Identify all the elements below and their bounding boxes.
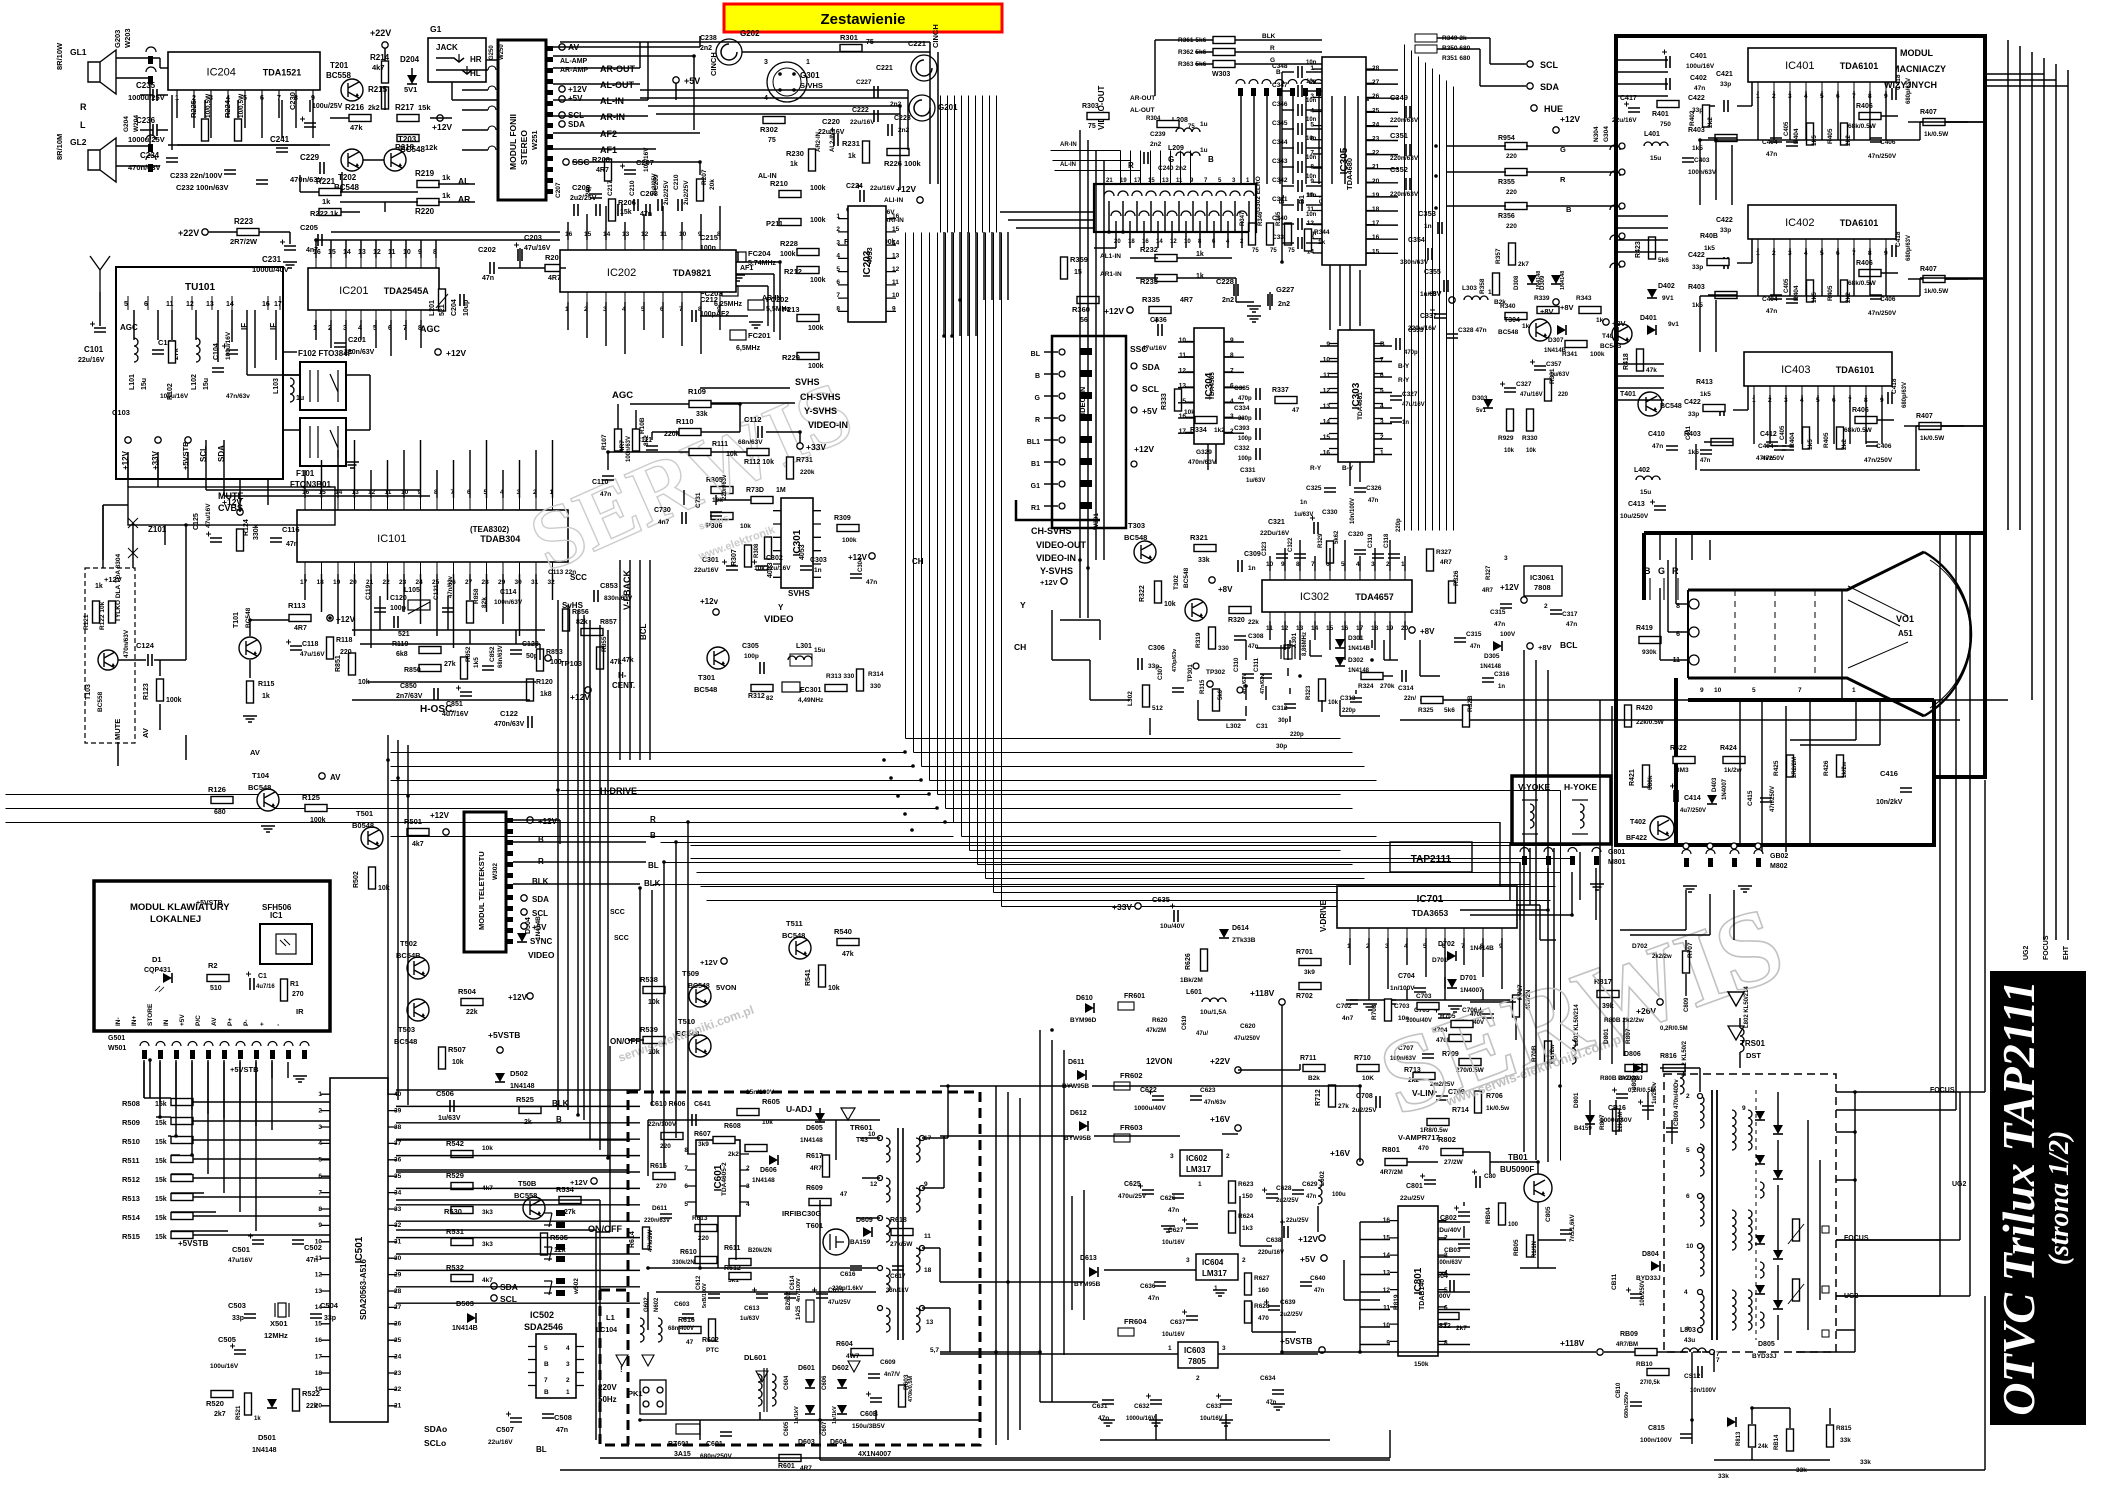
svg-text:B0548: B0548 bbox=[352, 821, 374, 830]
svg-text:CB09 470n/40Dv: CB09 470n/40Dv bbox=[1674, 1079, 1680, 1126]
svg-text:BC558: BC558 bbox=[97, 691, 104, 712]
svg-text:R312: R312 bbox=[748, 693, 765, 700]
svg-text:BYM96D: BYM96D bbox=[1070, 1017, 1097, 1024]
svg-text:19: 19 bbox=[333, 579, 341, 586]
svg-text:BF422: BF422 bbox=[1626, 835, 1647, 842]
svg-text:TDA4605-2: TDA4605-2 bbox=[721, 1162, 728, 1196]
svg-text:C221: C221 bbox=[876, 65, 893, 72]
scart labels bbox=[1100, 155, 1368, 278]
capacitor C241 bbox=[270, 135, 290, 152]
svg-text:6: 6 bbox=[318, 1173, 322, 1180]
wire rarray to ic501 bbox=[144, 1098, 228, 1231]
svg-text:10u/40V: 10u/40V bbox=[1160, 923, 1185, 930]
svg-text:16: 16 bbox=[315, 1337, 323, 1344]
wire c228 net bbox=[1236, 283, 1270, 312]
labels d806 area bbox=[1632, 940, 1694, 996]
svg-text:16: 16 bbox=[1383, 1217, 1391, 1224]
svg-text:2R7/2W: 2R7/2W bbox=[230, 237, 258, 246]
label Y CH bbox=[1014, 600, 1026, 652]
svg-text:AL-IN: AL-IN bbox=[1060, 162, 1076, 168]
svg-text:C801: C801 bbox=[1406, 1183, 1423, 1190]
transformer-caps cluster C328 bbox=[1408, 285, 1632, 354]
svg-text:R207: R207 bbox=[701, 169, 708, 185]
33V cluster bbox=[1070, 895, 1285, 1042]
svg-text:G301: G301 bbox=[800, 71, 820, 80]
svg-text:R509: R509 bbox=[122, 1118, 140, 1127]
svg-text:+16V: +16V bbox=[1330, 1148, 1350, 1158]
svg-text:27/0,5k: 27/0,5k bbox=[1640, 1380, 1661, 1386]
svg-text:11: 11 bbox=[1323, 372, 1330, 379]
svg-text:1k: 1k bbox=[848, 153, 856, 160]
svg-text:5,7: 5,7 bbox=[930, 1347, 939, 1354]
connector G203 G204 hooks bbox=[123, 47, 156, 172]
svg-text:R314: R314 bbox=[868, 671, 884, 678]
svg-text:T402: T402 bbox=[1630, 819, 1646, 826]
flyback pots bbox=[1788, 1219, 1869, 1337]
transistor T304 bbox=[1498, 303, 1626, 378]
IC302 TDA4657 bbox=[1262, 561, 1412, 632]
svg-text:16: 16 bbox=[262, 301, 270, 308]
svg-text:22u/25V: 22u/25V bbox=[1286, 1218, 1309, 1224]
svg-text:2u2/25V: 2u2/25V bbox=[570, 195, 597, 202]
svg-text:R620: R620 bbox=[1152, 1017, 1168, 1024]
yoke box V-YOKE H-YOKE bbox=[1512, 776, 1611, 844]
svg-text:22u/16V: 22u/16V bbox=[870, 185, 895, 192]
svg-text:37: 37 bbox=[394, 1140, 402, 1147]
svg-text:33k: 33k bbox=[1840, 1437, 1851, 1444]
svg-text:R1: R1 bbox=[290, 981, 299, 988]
svg-text:470: 470 bbox=[1258, 1315, 1269, 1322]
svg-text:47u/16V: 47u/16V bbox=[524, 245, 551, 252]
svg-text:68k/0.5W: 68k/0.5W bbox=[1848, 280, 1877, 287]
MUTE AV labels bbox=[113, 719, 150, 740]
svg-text:T104: T104 bbox=[252, 771, 270, 780]
wire onoff run bbox=[596, 1040, 644, 1232]
svg-text:SCL: SCL bbox=[1142, 384, 1159, 394]
svg-text:11: 11 bbox=[1176, 178, 1183, 184]
res R604 C609 bbox=[836, 1341, 900, 1378]
svg-text:7: 7 bbox=[1380, 357, 1384, 364]
svg-text:+5V: +5V bbox=[1142, 406, 1158, 416]
svg-text:470n/63V: 470n/63V bbox=[1188, 459, 1217, 466]
svg-text:22u/16V: 22u/16V bbox=[488, 1439, 513, 1446]
svg-text:21: 21 bbox=[394, 1403, 402, 1410]
svg-text:R: R bbox=[1035, 417, 1040, 424]
svg-text:1: 1 bbox=[1168, 1345, 1172, 1352]
capacitor C232 bbox=[176, 180, 268, 192]
svg-text:AF2: AF2 bbox=[600, 129, 617, 139]
svg-text:470k/0,5M: 470k/0,5M bbox=[908, 1376, 914, 1402]
svg-text:C215: C215 bbox=[700, 233, 718, 242]
svg-text:C60B: C60B bbox=[860, 1411, 878, 1418]
svg-text:15n/100V: 15n/100V bbox=[746, 1089, 775, 1096]
svg-text:R420: R420 bbox=[1636, 705, 1653, 712]
svg-text:SFH506: SFH506 bbox=[262, 903, 292, 912]
svg-text:C610 R606: C610 R606 bbox=[650, 1101, 686, 1108]
video-in bus label bbox=[1078, 387, 1087, 420]
svg-text:10: 10 bbox=[1184, 239, 1191, 245]
svg-text:CB11: CB11 bbox=[1611, 1273, 1618, 1290]
wire scart upper feeds bbox=[1051, 151, 1191, 185]
svg-text:470p/63v: 470p/63v bbox=[1172, 648, 1178, 672]
flyback TR801 DST bbox=[1664, 1026, 1836, 1352]
svg-text:82: 82 bbox=[766, 695, 774, 702]
svg-text:R802: R802 bbox=[1438, 1135, 1456, 1144]
svg-text:47n: 47n bbox=[1314, 1288, 1325, 1294]
svg-text:IC202: IC202 bbox=[607, 267, 636, 279]
svg-text:15u: 15u bbox=[203, 378, 210, 390]
scart G302 ELRO bbox=[1094, 176, 1262, 245]
svg-text:100n/63V: 100n/63V bbox=[626, 436, 632, 462]
svg-text:G201: G201 bbox=[938, 103, 958, 112]
svg-text:L103: L103 bbox=[273, 378, 280, 394]
svg-text:R807: R807 bbox=[1625, 1028, 1632, 1044]
right edge vertical wires bbox=[1985, 40, 2068, 940]
svg-text:3: 3 bbox=[1504, 555, 1508, 562]
svg-text:+: + bbox=[259, 1022, 266, 1026]
capacitor C201 bbox=[334, 335, 375, 356]
transformer TR601 windings bbox=[868, 1128, 939, 1354]
svg-text:15k: 15k bbox=[155, 1177, 167, 1184]
res R113 R118 bbox=[286, 601, 356, 659]
svg-text:+5V: +5V bbox=[179, 1014, 186, 1026]
svg-text:R113: R113 bbox=[288, 601, 306, 610]
svg-text:C229: C229 bbox=[300, 153, 320, 162]
trim L201 bbox=[429, 289, 448, 316]
diode D611 rail 22V bbox=[1062, 1056, 1241, 1112]
regulator IC604 LM317 bbox=[1140, 1254, 1327, 1338]
svg-text:C315: C315 bbox=[1466, 631, 1482, 638]
svg-text:11: 11 bbox=[1383, 1305, 1390, 1312]
svg-text:C222: C222 bbox=[852, 107, 869, 114]
svg-text:R323: R323 bbox=[1306, 685, 1312, 700]
svg-text:30p: 30p bbox=[1276, 743, 1287, 750]
svg-text:T302: T302 bbox=[1173, 575, 1180, 590]
svg-text:R359: R359 bbox=[1070, 255, 1088, 264]
svg-text:R347: R347 bbox=[1240, 211, 1246, 226]
ic801 bbox=[1383, 1206, 1448, 1356]
svg-text:R: R bbox=[1560, 175, 1566, 184]
svg-text:R120: R120 bbox=[536, 679, 553, 686]
svg-text:680: 680 bbox=[214, 809, 226, 816]
svg-text:CH: CH bbox=[912, 557, 924, 566]
svg-text:5k62: 5k62 bbox=[1334, 530, 1340, 544]
svg-text:22u/16V: 22u/16V bbox=[1612, 117, 1637, 124]
svg-text:R501: R501 bbox=[404, 817, 422, 826]
caps C616 C617 bbox=[832, 1266, 909, 1294]
svg-text:D702: D702 bbox=[1632, 943, 1648, 950]
wire g501 drops bbox=[144, 1062, 288, 1231]
svg-text:C631: C631 bbox=[1092, 1403, 1108, 1410]
wire ic302 bottom stubs bbox=[1270, 540, 1405, 660]
svg-text:10n: 10n bbox=[1306, 79, 1317, 85]
svg-text:R1/1N: R1/1N bbox=[1532, 1241, 1538, 1258]
svg-text:2n2: 2n2 bbox=[1278, 301, 1290, 308]
svg-text:680k: 680k bbox=[1647, 775, 1654, 790]
svg-text:2k2: 2k2 bbox=[1707, 117, 1714, 128]
res R419 bbox=[1636, 625, 1661, 656]
svg-text:10: 10 bbox=[1714, 687, 1722, 694]
svg-text:5VON: 5VON bbox=[716, 983, 736, 992]
svg-text:FR604: FR604 bbox=[1124, 1317, 1147, 1326]
svg-text:IC402: IC402 bbox=[1785, 217, 1814, 229]
svg-text:Z101: Z101 bbox=[148, 525, 167, 534]
svg-text:R325: R325 bbox=[1418, 707, 1434, 714]
svg-text:L602: L602 bbox=[1319, 1171, 1326, 1186]
svg-text:R705: R705 bbox=[1440, 1013, 1456, 1020]
svg-text:+12V: +12V bbox=[700, 958, 718, 967]
svg-text:R357: R357 bbox=[1495, 248, 1502, 264]
svg-text:27: 27 bbox=[1372, 79, 1380, 86]
svg-text:R851: R851 bbox=[335, 655, 342, 672]
res R301 R302 bbox=[760, 33, 874, 144]
wire ic701 bottom rail bbox=[1350, 977, 1510, 1000]
svg-text:4R7: 4R7 bbox=[810, 1165, 822, 1172]
cap C204 bbox=[451, 294, 470, 316]
svg-text:33: 33 bbox=[394, 1206, 402, 1213]
caps C310 C311 bbox=[1206, 657, 1272, 694]
svg-text:VIDEO: VIDEO bbox=[764, 614, 794, 625]
bus horizontal long lines bbox=[6, 753, 954, 837]
svg-text:47k: 47k bbox=[350, 123, 363, 132]
svg-text:UG2: UG2 bbox=[2023, 946, 2030, 961]
svg-text:47k: 47k bbox=[622, 657, 634, 664]
svg-text:R423: R423 bbox=[1635, 241, 1642, 258]
svg-text:R857: R857 bbox=[600, 619, 617, 626]
svg-text:C421: C421 bbox=[1716, 71, 1733, 78]
svg-text:F102 FTO384F: F102 FTO384F bbox=[298, 349, 353, 358]
psu wires secondary bbox=[940, 1086, 1318, 1354]
wire crt board bbox=[1660, 533, 1880, 745]
svg-text:1k/0.5W: 1k/0.5W bbox=[1920, 435, 1945, 442]
wire ic302 bottom cluster bbox=[1226, 644, 1393, 750]
caps C315 C317 area bbox=[1482, 555, 1578, 628]
svg-text:2: 2 bbox=[1380, 434, 1384, 441]
svg-text:R232: R232 bbox=[1140, 245, 1158, 254]
svg-text:15k: 15k bbox=[155, 1234, 167, 1241]
svg-text:34: 34 bbox=[394, 1189, 402, 1196]
svg-text:47n/63v: 47n/63v bbox=[1260, 673, 1266, 694]
svg-text:680n/250V: 680n/250V bbox=[700, 1453, 732, 1460]
svg-text:15k: 15k bbox=[155, 1196, 167, 1203]
capacitor C208 bbox=[634, 189, 658, 218]
svg-text:10u/16V: 10u/16V bbox=[643, 147, 650, 172]
svg-text:R330: R330 bbox=[1522, 435, 1538, 442]
svg-text:6k8: 6k8 bbox=[396, 651, 408, 658]
label AGC mid bbox=[420, 324, 466, 358]
svg-text:16: 16 bbox=[892, 213, 900, 220]
svg-text:47n: 47n bbox=[1098, 1415, 1109, 1422]
svg-text:680n/250v: 680n/250v bbox=[1624, 1391, 1630, 1418]
svg-text:R520: R520 bbox=[206, 1399, 224, 1408]
svg-text:R525: R525 bbox=[516, 1095, 534, 1104]
svg-text:DST: DST bbox=[1746, 1051, 1761, 1060]
regulator IC603 7805 bbox=[1092, 1336, 1325, 1422]
svg-text:R-Y: R-Y bbox=[1398, 377, 1410, 384]
svg-text:C418: C418 bbox=[1895, 74, 1902, 90]
wire IC204 bottom bus bbox=[168, 95, 320, 150]
wire thick crt-board top bbox=[1644, 533, 1985, 600]
svg-text:1k: 1k bbox=[442, 173, 451, 182]
transistor T303 bbox=[1124, 521, 1156, 563]
svg-text:BC548: BC548 bbox=[1124, 533, 1147, 542]
capacitor C209 bbox=[653, 174, 670, 211]
svg-text:220p: 220p bbox=[1342, 708, 1356, 714]
svg-text:47n/250V: 47n/250V bbox=[1756, 455, 1785, 462]
svg-text:BLK: BLK bbox=[644, 879, 661, 888]
wire ic305 cap stubs bbox=[1282, 72, 1322, 262]
wire tuner to ic101 bbox=[128, 352, 297, 512]
cap C804 R819 bbox=[1393, 1273, 1467, 1332]
svg-text:R212: R212 bbox=[784, 267, 802, 276]
svg-text:AR-OUT: AR-OUT bbox=[600, 64, 635, 74]
svg-text:R343: R343 bbox=[1576, 295, 1592, 302]
speaker GL1 bbox=[55, 28, 132, 94]
svg-text:R355: R355 bbox=[1498, 179, 1515, 186]
svg-text:1n: 1n bbox=[1402, 420, 1409, 426]
module pin labels bbox=[559, 42, 636, 167]
svg-text:R731: R731 bbox=[796, 457, 813, 464]
svg-text:D603: D603 bbox=[798, 1439, 815, 1446]
svg-text:AV: AV bbox=[211, 1017, 218, 1026]
svg-text:BCL: BCL bbox=[1560, 640, 1577, 650]
svg-text:R418: R418 bbox=[1623, 353, 1630, 370]
wire psu top rails bbox=[648, 1108, 880, 1176]
svg-text:D606: D606 bbox=[760, 1167, 777, 1174]
svg-text:30: 30 bbox=[394, 1255, 402, 1262]
svg-text:C809: C809 bbox=[1684, 997, 1690, 1012]
svg-text:15k: 15k bbox=[155, 1215, 167, 1222]
cinch G201 upper bbox=[908, 24, 940, 81]
svg-text:4R7: 4R7 bbox=[1180, 297, 1193, 304]
svg-text:C347: C347 bbox=[1272, 82, 1288, 89]
svg-text:220n/63v: 220n/63v bbox=[722, 474, 728, 500]
svg-text:+12V: +12V bbox=[1134, 444, 1154, 454]
IC304 TDA4565 bbox=[1179, 328, 1234, 444]
labels right of teletext bbox=[600, 786, 661, 916]
svg-text:N304: N304 bbox=[1593, 126, 1600, 142]
svg-text:R40B: R40B bbox=[1700, 233, 1718, 240]
video cluster C305 L301 bbox=[742, 643, 884, 704]
res R327 R326 bbox=[1427, 549, 1461, 603]
svg-text:33k: 33k bbox=[1198, 557, 1210, 564]
svg-text:13: 13 bbox=[1323, 403, 1331, 410]
svg-text:3: 3 bbox=[1444, 1252, 1448, 1259]
svg-text:47u/16V: 47u/16V bbox=[1520, 392, 1543, 398]
tp dots ic302 bbox=[1193, 658, 1374, 693]
svg-text:+8V: +8V bbox=[1540, 307, 1554, 316]
video-out vertical label bbox=[1082, 85, 1155, 130]
wire ic501 right runs bbox=[396, 1090, 640, 1303]
svg-text:5: 5 bbox=[544, 1345, 548, 1352]
res R616 bbox=[678, 1317, 701, 1346]
svg-text:4: 4 bbox=[746, 1201, 750, 1208]
capacitor C231 bbox=[252, 232, 297, 274]
wire ic302 net1 bbox=[1150, 640, 1440, 735]
svg-text:9: 9 bbox=[1326, 341, 1330, 348]
svg-text:R426: R426 bbox=[1823, 760, 1830, 776]
svg-text:3: 3 bbox=[1186, 1257, 1190, 1264]
svg-text:1N4148: 1N4148 bbox=[800, 1137, 823, 1144]
svg-text:4n7/100V: 4n7/100V bbox=[796, 1278, 802, 1302]
svg-text:D305: D305 bbox=[1484, 653, 1500, 660]
svg-text:W250: W250 bbox=[499, 44, 505, 60]
svg-text:13: 13 bbox=[206, 301, 214, 308]
svg-text:16: 16 bbox=[1323, 450, 1331, 457]
svg-text:C703: C703 bbox=[1394, 1003, 1410, 1010]
svg-text:C704: C704 bbox=[1398, 973, 1415, 980]
svg-text:R801: R801 bbox=[1382, 1145, 1400, 1154]
svg-text:R230: R230 bbox=[786, 149, 804, 158]
svg-text:BZ602: BZ602 bbox=[786, 1291, 792, 1310]
svg-text:C815: C815 bbox=[1648, 1425, 1665, 1432]
svg-text:BYD33J: BYD33J bbox=[1618, 1075, 1643, 1082]
svg-text:26: 26 bbox=[1372, 93, 1380, 100]
svg-text:G250: G250 bbox=[489, 45, 495, 60]
resistor R215 bbox=[368, 85, 389, 109]
svg-text:R222 1k: R222 1k bbox=[310, 209, 339, 218]
svg-text:B: B bbox=[1380, 341, 1385, 348]
svg-text:R424: R424 bbox=[1720, 745, 1737, 752]
svg-text:8: 8 bbox=[836, 305, 840, 312]
svg-text:17: 17 bbox=[315, 1353, 323, 1360]
res R115 bbox=[243, 681, 274, 722]
svg-text:C411: C411 bbox=[1686, 425, 1692, 440]
svg-text:47n: 47n bbox=[1266, 1400, 1277, 1406]
res R423 D402 bbox=[1635, 237, 1675, 302]
svg-text:47k/3W: 47k/3W bbox=[647, 1229, 654, 1252]
svg-text:C418: C418 bbox=[1895, 231, 1902, 247]
cap C730 C731 bbox=[654, 474, 728, 526]
svg-text:TB01: TB01 bbox=[1508, 1153, 1528, 1162]
svg-text:3: 3 bbox=[318, 1124, 322, 1131]
svg-text:47n: 47n bbox=[1652, 443, 1663, 450]
svg-text:15u: 15u bbox=[141, 378, 148, 390]
svg-text:B: B bbox=[544, 1389, 549, 1396]
svg-text:C405: C405 bbox=[1784, 121, 1790, 136]
svg-text:+22V: +22V bbox=[370, 28, 391, 38]
svg-text:C730: C730 bbox=[654, 507, 671, 514]
svg-text:22: 22 bbox=[1372, 150, 1380, 157]
cap C315b C316 bbox=[1454, 631, 1510, 690]
svg-text:P-: P- bbox=[243, 1020, 250, 1027]
svg-text:8R/10W: 8R/10W bbox=[55, 42, 64, 70]
svg-text:C640: C640 bbox=[1310, 1275, 1326, 1282]
svg-text:C125: C125 bbox=[193, 513, 200, 530]
svg-text:SDA20563-A516: SDA20563-A516 bbox=[359, 1259, 368, 1320]
svg-text:R345: R345 bbox=[1276, 211, 1282, 226]
xtal X301 bbox=[1281, 632, 1308, 659]
svg-text:R122 10k: R122 10k bbox=[99, 601, 106, 630]
svg-text:4053: 4053 bbox=[767, 562, 774, 578]
psu dashed box bbox=[628, 1092, 980, 1445]
svg-text:68n/63V: 68n/63V bbox=[738, 439, 763, 446]
svg-text:27k: 27k bbox=[444, 661, 456, 668]
svg-text:R107: R107 bbox=[601, 434, 608, 450]
svg-text:2k7: 2k7 bbox=[214, 1411, 226, 1418]
svg-text:RB10: RB10 bbox=[1636, 1361, 1653, 1368]
svg-text:R315: R315 bbox=[1200, 679, 1206, 694]
svg-text:8R/10M: 8R/10M bbox=[55, 134, 64, 160]
wire jack to module bbox=[452, 60, 498, 100]
res R420 bbox=[1625, 705, 1665, 727]
svg-text:BA159: BA159 bbox=[850, 1239, 871, 1246]
svg-text:TDA2545A: TDA2545A bbox=[384, 286, 430, 296]
res R124 bbox=[222, 497, 260, 551]
svg-text:D605: D605 bbox=[806, 1125, 823, 1132]
svg-text:3M3: 3M3 bbox=[1676, 767, 1689, 774]
svg-text:C604: C604 bbox=[784, 1375, 790, 1390]
